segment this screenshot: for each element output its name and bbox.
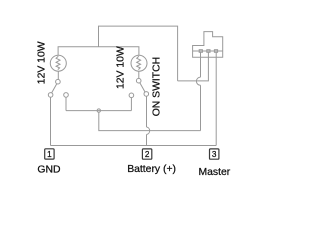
svg-text:2: 2 [145,150,150,159]
svg-text:Master: Master [199,167,231,178]
svg-text:ON SWITCH: ON SWITCH [151,57,162,116]
svg-text:3: 3 [212,150,217,159]
svg-text:12V 10W: 12V 10W [36,41,47,84]
svg-text:GND: GND [37,165,60,176]
svg-text:1: 1 [47,150,52,159]
svg-text:Battery (+): Battery (+) [127,164,176,175]
svg-text:12V 10W: 12V 10W [116,46,127,89]
